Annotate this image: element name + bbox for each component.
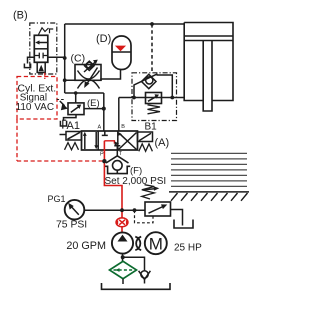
valve A red path [104, 141, 114, 144]
node pilot join [133, 208, 137, 212]
load stack lines [171, 153, 247, 186]
pump [112, 232, 133, 253]
cylinder rod [203, 41, 212, 112]
relief internal arrow [149, 204, 168, 213]
F symbol chevron [106, 156, 129, 163]
valve B spring top [39, 28, 49, 35]
svg-text:Set 2,000 PSI: Set 2,000 PSI [105, 176, 167, 187]
filter element dashed [114, 269, 134, 271]
wire red pressure line [104, 141, 122, 233]
valve A sq1 flow paths [83, 132, 98, 150]
valve B solenoid box bottom [37, 62, 45, 72]
relief tank [174, 220, 193, 229]
valve A sq2 blocked A port [102, 131, 108, 135]
svg-text:75 PSI: 75 PSI [56, 220, 87, 231]
B1 enclosure [132, 73, 177, 121]
wire pump suction [122, 254, 124, 262]
valve E drain tank bracket [60, 121, 66, 126]
valve A sq3 crossed paths [117, 132, 136, 150]
filter diamond [110, 261, 137, 278]
valve C bypass check diagonal [84, 62, 96, 72]
svg-text:M: M [149, 234, 163, 253]
B1 counterbalance box [146, 93, 162, 104]
svg-text:B: B [121, 124, 125, 130]
breather check circle [141, 271, 148, 278]
wire accumulator link [101, 69, 121, 80]
svg-text:(B): (B) [13, 10, 28, 22]
svg-text:PG1: PG1 [48, 194, 66, 204]
node suction branch [121, 255, 125, 259]
valve C flow control box [75, 65, 101, 81]
svg-text:A: A [98, 124, 102, 130]
valve C throttle arcs [78, 71, 100, 89]
node red line signal junction [102, 159, 106, 163]
node counterbalance right [170, 96, 174, 100]
valve A red path arrow [115, 141, 120, 145]
node junction line1 [63, 78, 67, 82]
relief valve F box [145, 202, 171, 216]
cylinder body [184, 23, 233, 101]
valve A left spring [65, 143, 79, 150]
valve E electric dash stub [57, 99, 66, 101]
wire main vertical rod-side [64, 24, 66, 93]
wire filter to tank [122, 279, 124, 284]
filter arrow [115, 268, 119, 272]
valve E solenoid arrow [60, 101, 68, 110]
F symbol stem [116, 170, 118, 173]
F symbol circle [113, 161, 123, 171]
red shutoff X [118, 220, 127, 225]
valve B tank bracket [24, 64, 30, 68]
wire red dashed signal path [17, 119, 104, 161]
label A1 bracket [63, 120, 66, 128]
valve A body [82, 131, 138, 150]
svg-text:(D): (D) [96, 33, 111, 45]
ground line [169, 191, 249, 193]
breather seat [139, 271, 151, 280]
valve A right spring [139, 144, 153, 152]
wire valve E drain [64, 115, 77, 121]
svg-text:B1: B1 [145, 122, 158, 133]
accumulator gas triangle [115, 46, 126, 52]
relief adjust arrow [143, 186, 159, 191]
wire valve E right port [84, 108, 104, 110]
signal box red dashed [17, 77, 57, 120]
relief spring [142, 185, 155, 199]
node valve E top [74, 91, 78, 95]
wire valve A T port to F [116, 150, 118, 156]
B1 internal arrow [148, 94, 159, 101]
wire valve E top port [75, 93, 77, 103]
valve B top-right bracket [50, 29, 54, 33]
node junction on top line [150, 22, 154, 26]
accumulator divider [112, 51, 131, 53]
svg-text:P: P [100, 152, 104, 158]
wire breather branch [123, 257, 145, 270]
svg-text:25 HP: 25 HP [174, 242, 202, 253]
breather stem [144, 278, 146, 284]
ground hatch [171, 193, 248, 201]
wire red dashed signal stub [44, 73, 46, 79]
wire relief outlet [171, 210, 183, 226]
wire top line to cylinder [65, 23, 185, 25]
svg-text:(C): (C) [71, 53, 86, 65]
relief pilot dashed [135, 210, 154, 223]
wire pilot dashed from top line [151, 24, 153, 73]
valve B solenoid arrow [39, 65, 44, 71]
node red crossing [120, 208, 124, 212]
B1 check diamond [142, 74, 157, 88]
pump triangle [118, 235, 128, 242]
node junction valve B branch [63, 56, 67, 60]
valve B enclosure [30, 23, 57, 74]
wire line1 [65, 79, 101, 81]
wire valve B right port [48, 56, 65, 58]
valve C throttle arrow [84, 68, 97, 89]
wire gauge to relief [84, 209, 145, 211]
svg-text:(A): (A) [155, 137, 170, 149]
valve E internal arrow [71, 105, 81, 113]
valve C check diamond [85, 61, 95, 70]
svg-text:110 VAC: 110 VAC [16, 102, 55, 113]
svg-text:A1: A1 [67, 120, 80, 132]
motor [145, 232, 167, 254]
B1 check ball [146, 77, 153, 84]
wire line2 [65, 92, 104, 94]
B1 spring [148, 105, 161, 114]
valve B arrow in top square [35, 40, 48, 44]
cylinder piston [184, 36, 233, 41]
svg-text:20 GPM: 20 GPM [66, 240, 106, 252]
svg-text:(E): (E) [87, 98, 100, 109]
F symbol bracket [105, 166, 131, 173]
accumulator D body [112, 36, 131, 70]
valve C check ball [86, 62, 92, 68]
valve A left solenoid [66, 132, 82, 141]
wire counterbalance line [119, 97, 184, 99]
gauge PG1 [65, 200, 85, 220]
valve C bypass arrowhead [93, 60, 98, 65]
valve A sq2 blocked T port [114, 146, 120, 150]
B1 check bypass loop [134, 74, 172, 98]
valve B blocked ports marks [34, 53, 48, 59]
wire valve B left port to tank [28, 57, 35, 63]
main tank [102, 283, 171, 289]
red shutoff circle [116, 218, 128, 227]
gauge needle [68, 203, 79, 215]
valve A right solenoid [138, 132, 153, 142]
valve E solenoid valve box [68, 103, 84, 115]
node counterbalance left [132, 96, 136, 100]
wire port B line [118, 98, 120, 132]
coupling [135, 237, 141, 251]
valve B body [34, 35, 48, 62]
wire port A drop [103, 93, 105, 131]
